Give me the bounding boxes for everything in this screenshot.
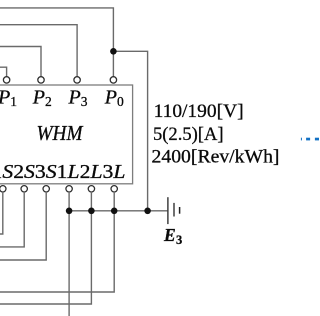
junction dot on P0 feed <box>110 48 117 55</box>
wire 2S out <box>0 192 24 247</box>
svg-text:5(2.5)[A]: 5(2.5)[A] <box>153 124 224 145</box>
terminal 2L <box>88 186 94 192</box>
wire 3S out <box>0 192 46 260</box>
svg-text:P3: P3 <box>68 87 88 110</box>
svg-text:E3: E3 <box>163 225 182 247</box>
wire 1L down <box>68 192 70 316</box>
ground electrode E3 bar mid <box>173 203 175 217</box>
ground electrode E3 bar long <box>167 197 169 224</box>
terminal P0 <box>110 77 116 83</box>
junction 3L/bus <box>111 208 118 215</box>
wire earth bus <box>69 210 167 212</box>
terminal 3S <box>43 186 49 192</box>
svg-text:WHM: WHM <box>37 121 84 145</box>
junction 1L/bus <box>66 208 73 215</box>
box WHM <box>0 85 133 184</box>
blue dashed continuation mark dash 1 <box>301 138 302 141</box>
ground electrode E3 bar short <box>179 207 181 214</box>
terminal 1S <box>0 186 6 192</box>
wire 1S out <box>0 192 3 234</box>
svg-text:P0: P0 <box>104 87 124 110</box>
junction 2L/bus <box>88 208 95 215</box>
terminal 1L <box>66 186 72 192</box>
terminal 3L <box>111 186 117 192</box>
terminal P1 <box>3 77 9 83</box>
terminal P2 <box>38 77 44 83</box>
terminal P3 <box>74 77 80 83</box>
svg-text:P2: P2 <box>32 87 52 110</box>
blue dashed continuation mark dash 3 <box>315 138 319 141</box>
terminal 2S <box>21 186 27 192</box>
junction earth riser/bus <box>144 208 151 215</box>
svg-text:110/190[V]: 110/190[V] <box>154 101 244 122</box>
wire P0 feed (top line) <box>0 8 113 77</box>
wire 2L out <box>0 192 91 304</box>
wire neutral branch to earth riser <box>113 51 147 211</box>
svg-text:1S2S3S1L2L3L: 1S2S3S1L2L3L <box>0 162 126 183</box>
wire 3L out <box>0 192 114 292</box>
wire P2 feed <box>0 47 41 77</box>
svg-text:2400[Rev/kWh]: 2400[Rev/kWh] <box>152 147 280 168</box>
svg-text:P1: P1 <box>0 87 17 110</box>
wire P1 feed <box>0 67 7 77</box>
wire P3 feed <box>0 25 77 77</box>
blue dashed continuation mark dash 2 <box>306 138 310 141</box>
